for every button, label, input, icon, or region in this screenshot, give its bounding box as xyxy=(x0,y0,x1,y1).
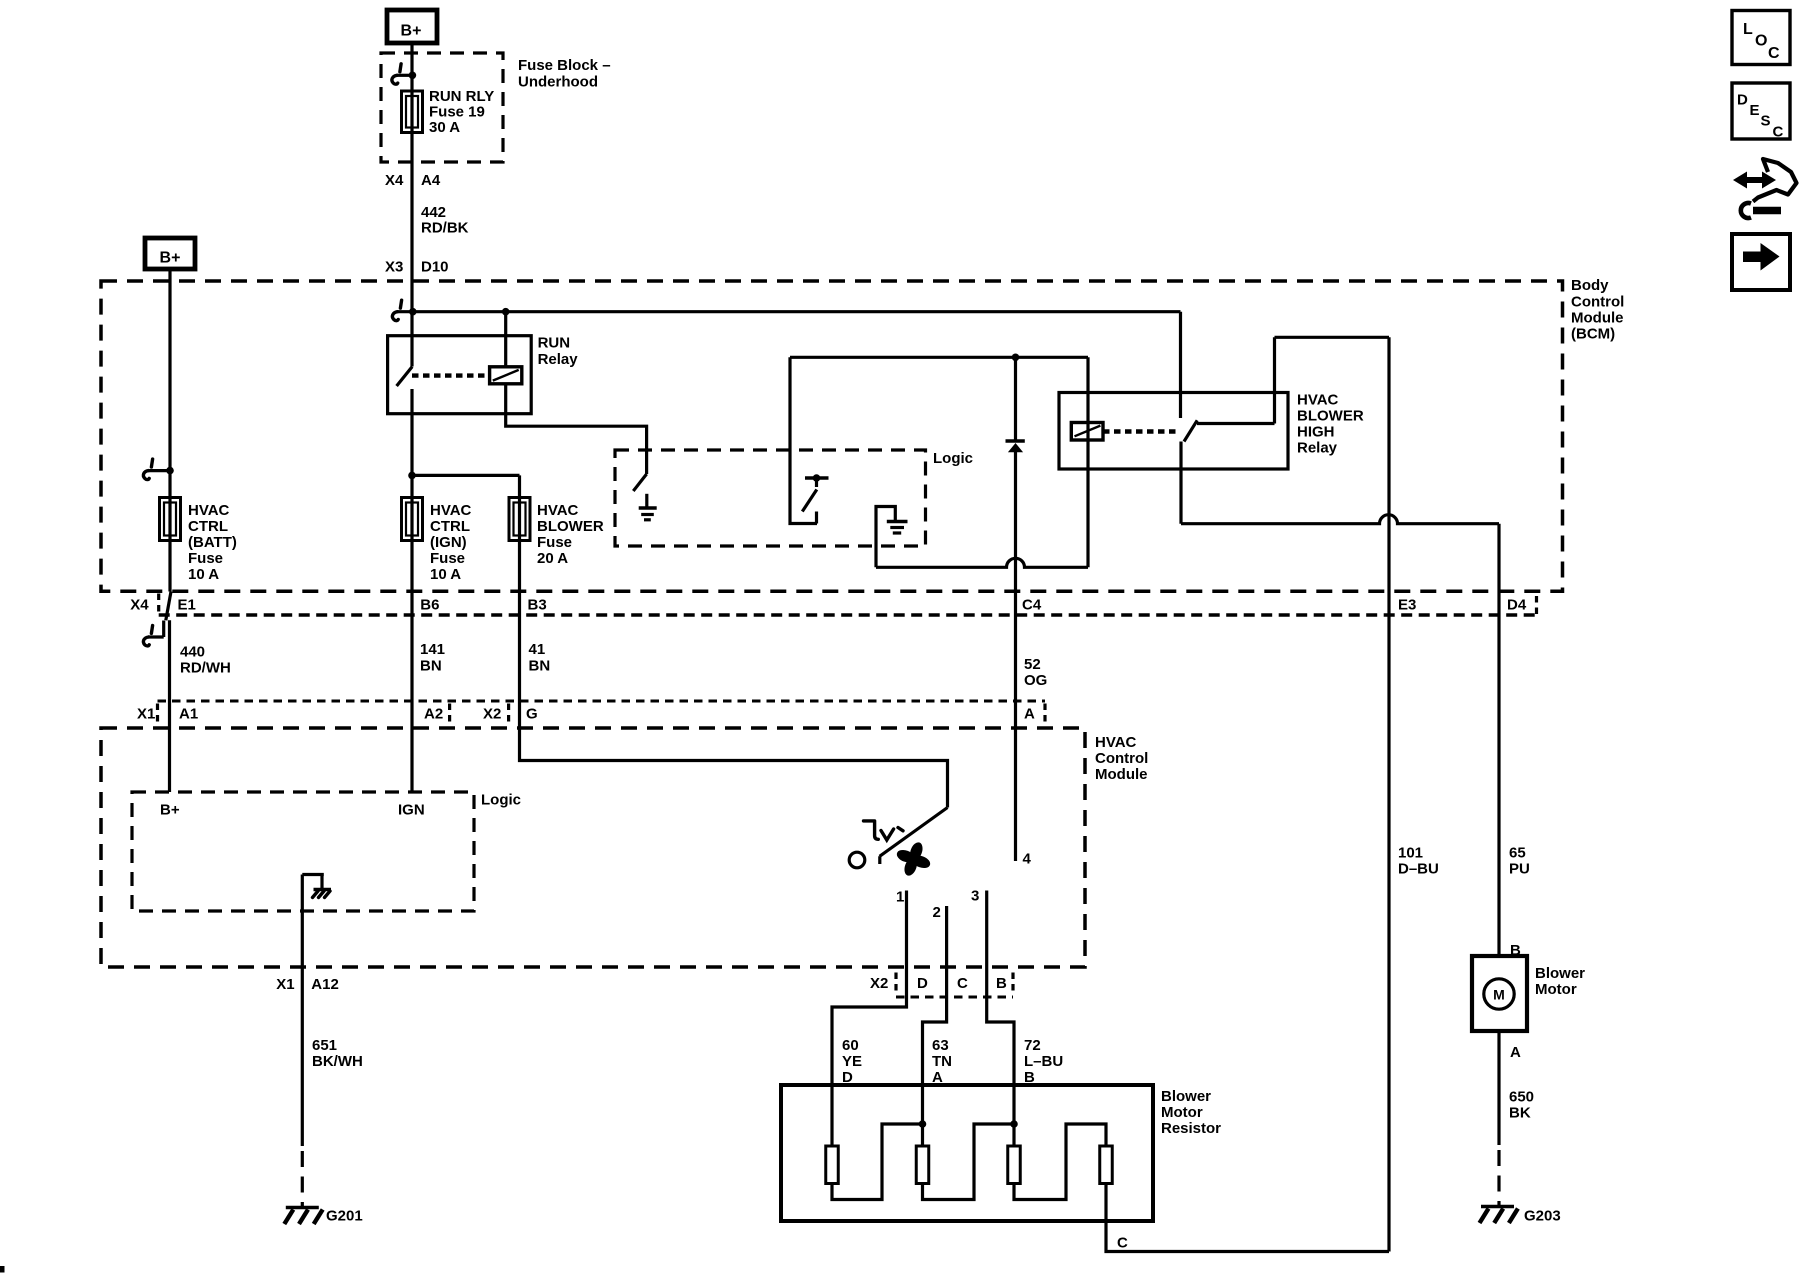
svg-text:Relay: Relay xyxy=(538,351,579,368)
svg-text:Underhood: Underhood xyxy=(518,73,598,90)
svg-text:Motor: Motor xyxy=(1161,1104,1203,1121)
svg-text:X2: X2 xyxy=(483,705,501,722)
svg-text:L: L xyxy=(1743,21,1753,38)
svg-text:60: 60 xyxy=(842,1037,859,1054)
svg-text:IGN: IGN xyxy=(398,801,425,818)
svg-text:X1: X1 xyxy=(276,976,294,993)
svg-text:41: 41 xyxy=(529,641,546,658)
svg-text:440: 440 xyxy=(180,643,205,660)
svg-text:CTRL: CTRL xyxy=(188,518,228,535)
svg-text:RUN RLY: RUN RLY xyxy=(429,88,494,105)
svg-text:B: B xyxy=(1024,1069,1035,1086)
svg-text:63: 63 xyxy=(932,1037,949,1054)
svg-text:RUN: RUN xyxy=(538,335,571,352)
svg-text:O: O xyxy=(1755,33,1767,50)
svg-text:Fuse Block –: Fuse Block – xyxy=(518,57,611,74)
svg-text:RD/WH: RD/WH xyxy=(180,659,231,676)
svg-text:X2: X2 xyxy=(870,975,888,992)
svg-text:(IGN): (IGN) xyxy=(430,534,467,551)
svg-text:D4: D4 xyxy=(1507,596,1527,613)
svg-text:B3: B3 xyxy=(528,596,547,613)
svg-text:BK/WH: BK/WH xyxy=(312,1053,363,1070)
svg-text:Fuse: Fuse xyxy=(537,534,572,551)
svg-text:BN: BN xyxy=(420,657,442,674)
svg-text:Blower: Blower xyxy=(1535,965,1585,982)
svg-text:A: A xyxy=(1024,705,1035,722)
svg-text:BK: BK xyxy=(1509,1104,1531,1121)
svg-text:650: 650 xyxy=(1509,1088,1534,1105)
svg-text:D10: D10 xyxy=(421,258,449,275)
svg-text:HIGH: HIGH xyxy=(1297,423,1335,440)
svg-text:B+: B+ xyxy=(160,250,181,267)
svg-text:2: 2 xyxy=(933,904,941,921)
svg-text:E1: E1 xyxy=(178,596,196,613)
svg-text:Fuse 19: Fuse 19 xyxy=(429,103,485,120)
svg-text:G: G xyxy=(526,705,538,722)
svg-text:A2: A2 xyxy=(424,705,443,722)
svg-text:52: 52 xyxy=(1024,656,1041,673)
svg-text:B6: B6 xyxy=(420,596,439,613)
svg-text:Relay: Relay xyxy=(1297,439,1338,456)
svg-text:Module: Module xyxy=(1095,766,1148,783)
svg-text:Resistor: Resistor xyxy=(1161,1120,1221,1137)
svg-text:Module: Module xyxy=(1571,309,1624,326)
svg-text:TN: TN xyxy=(932,1053,952,1070)
svg-text:Body: Body xyxy=(1571,277,1609,294)
svg-text:C: C xyxy=(1768,45,1780,62)
svg-text:D: D xyxy=(1737,92,1748,109)
svg-text:Control: Control xyxy=(1095,750,1148,767)
svg-text:B: B xyxy=(996,975,1007,992)
svg-text:A: A xyxy=(932,1069,943,1086)
svg-text:B: B xyxy=(1510,942,1521,959)
svg-text:RD/BK: RD/BK xyxy=(421,219,469,236)
svg-text:442: 442 xyxy=(421,204,446,221)
svg-text:C4: C4 xyxy=(1022,596,1042,613)
svg-text:PU: PU xyxy=(1509,860,1530,877)
svg-text:G203: G203 xyxy=(1524,1208,1561,1225)
svg-text:HVAC: HVAC xyxy=(430,502,472,519)
svg-text:(BATT): (BATT) xyxy=(188,534,237,551)
svg-text:A1: A1 xyxy=(179,705,198,722)
svg-text:D: D xyxy=(842,1069,853,1086)
svg-text:1: 1 xyxy=(896,888,904,905)
svg-text:A: A xyxy=(1510,1044,1521,1061)
svg-text:(BCM): (BCM) xyxy=(1571,326,1615,343)
svg-text:Motor: Motor xyxy=(1535,981,1577,998)
svg-text:101: 101 xyxy=(1398,844,1423,861)
svg-text:72: 72 xyxy=(1024,1037,1041,1054)
svg-text:BN: BN xyxy=(529,657,551,674)
svg-text:Fuse: Fuse xyxy=(188,550,223,567)
svg-text:A4: A4 xyxy=(421,172,441,189)
svg-text:M: M xyxy=(1493,987,1505,1003)
svg-text:3: 3 xyxy=(971,888,979,905)
svg-text:HVAC: HVAC xyxy=(537,502,579,519)
svg-text:X3: X3 xyxy=(385,258,403,275)
svg-text:10 A: 10 A xyxy=(188,566,219,583)
svg-text:L–BU: L–BU xyxy=(1024,1053,1063,1070)
svg-text:20 A: 20 A xyxy=(537,550,568,567)
svg-text:BLOWER: BLOWER xyxy=(537,518,604,535)
svg-text:Logic: Logic xyxy=(481,792,521,809)
svg-text:OG: OG xyxy=(1024,672,1047,689)
svg-text:X4: X4 xyxy=(385,172,404,189)
svg-text:4: 4 xyxy=(1023,850,1032,867)
svg-text:HVAC: HVAC xyxy=(188,502,230,519)
svg-text:BLOWER: BLOWER xyxy=(1297,407,1364,424)
svg-text:65: 65 xyxy=(1509,844,1526,861)
svg-text:B+: B+ xyxy=(160,801,180,818)
svg-text:E3: E3 xyxy=(1398,596,1416,613)
svg-text:X1: X1 xyxy=(137,705,155,722)
svg-text:CTRL: CTRL xyxy=(430,518,470,535)
svg-text:10 A: 10 A xyxy=(430,566,461,583)
svg-text:651: 651 xyxy=(312,1037,337,1054)
svg-text:G201: G201 xyxy=(326,1208,363,1225)
svg-text:YE: YE xyxy=(842,1053,862,1070)
svg-text:Control: Control xyxy=(1571,293,1624,310)
svg-text:141: 141 xyxy=(420,641,445,658)
svg-text:Blower: Blower xyxy=(1161,1088,1211,1105)
svg-text:HVAC: HVAC xyxy=(1297,391,1339,408)
svg-text:Logic: Logic xyxy=(933,450,973,467)
svg-text:D: D xyxy=(917,975,928,992)
svg-text:C: C xyxy=(957,975,968,992)
svg-text:D–BU: D–BU xyxy=(1398,860,1439,877)
svg-text:Fuse: Fuse xyxy=(430,550,465,567)
svg-text:X4: X4 xyxy=(130,596,149,613)
svg-text:E: E xyxy=(1750,102,1760,119)
svg-text:B+: B+ xyxy=(401,23,422,40)
svg-text:C: C xyxy=(1117,1234,1128,1251)
svg-text:30 A: 30 A xyxy=(429,119,460,136)
svg-text:C: C xyxy=(1773,124,1784,141)
svg-text:A12: A12 xyxy=(311,976,339,993)
svg-text:HVAC: HVAC xyxy=(1095,734,1137,751)
svg-text:S: S xyxy=(1761,113,1771,130)
